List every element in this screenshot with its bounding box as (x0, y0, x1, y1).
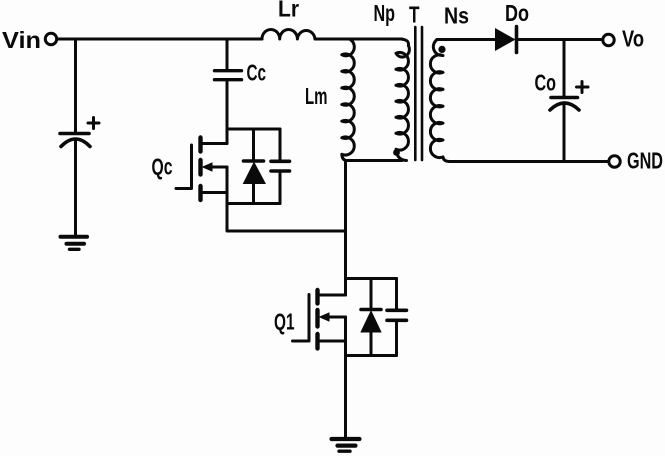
parallel capacitor Q1 (395, 279, 398, 310)
plus sign Co polarity (577, 82, 589, 93)
source arrow lead Q1 (327, 316, 346, 319)
capacitor Cin electrolytic (60, 132, 89, 136)
svg-text:Lr: Lr (278, 0, 299, 22)
wire Cc branch vertical (226, 39, 229, 69)
node Vin terminal (45, 33, 56, 44)
svg-text:Ns: Ns (444, 3, 469, 29)
svg-text:Do: Do (505, 0, 529, 26)
wire Co to ground rail (563, 104, 566, 162)
source bottom lead Qc (201, 191, 228, 194)
wire Qc source down and across (227, 202, 346, 231)
gate plate Qc (190, 145, 193, 188)
diode Do (495, 28, 516, 51)
svg-text:Q1: Q1 (274, 309, 295, 335)
Qc box bottom bar (227, 202, 280, 205)
source bottom lead Q1 (318, 340, 346, 343)
body diode Qc (252, 129, 255, 161)
svg-text:Co: Co (535, 70, 557, 96)
transformer magnetizing inductance Lm (342, 39, 355, 160)
wire Ns top to diode (437, 38, 495, 41)
inductor Lr (262, 29, 315, 39)
parallel capacitor Qc (279, 129, 282, 160)
wire Co branch (563, 40, 566, 97)
transformer primary Np (396, 39, 409, 160)
wire Cin to ground (74, 140, 77, 236)
transformer core (414, 27, 417, 160)
node phase dot Np (393, 149, 400, 156)
wire top rail Vin to Lr (57, 38, 262, 41)
capacitor Cc (215, 69, 242, 72)
source arrow lead Qc (210, 166, 227, 169)
svg-text:Np: Np (374, 0, 396, 26)
gate plate Q1 (308, 295, 311, 341)
wire input cap branch vertical (74, 39, 77, 132)
wire Cc to Qc drain box (226, 81, 229, 129)
drain lead Qc (201, 142, 228, 145)
Q1 box left edge segments (344, 279, 347, 356)
ground input (61, 235, 88, 239)
Qc box top bar (227, 128, 280, 131)
wire Lr to Np top (315, 38, 402, 41)
gate stub Q1 (293, 340, 310, 343)
svg-text:Lm: Lm (305, 83, 328, 109)
plus sign Cin polarity (88, 118, 99, 129)
wire primary bottom to Q1 (344, 161, 347, 279)
svg-text:GND: GND (627, 148, 663, 174)
Q1 box bottom bar (346, 354, 397, 357)
Qc box left edge (226, 128, 229, 204)
drain lead Q1 (318, 294, 346, 297)
Q1 box top bar (346, 277, 397, 280)
gate stub Qc (176, 187, 192, 190)
svg-text:Vin: Vin (2, 27, 41, 53)
ground Q1 (332, 437, 360, 441)
node phase dot Ns (438, 46, 445, 53)
svg-text:Qc: Qc (152, 154, 173, 180)
transformer secondary Ns (430, 40, 449, 162)
capacitor Co electrolytic (551, 96, 578, 100)
channel segments Q1 (315, 290, 319, 349)
svg-text:Cc: Cc (247, 60, 267, 86)
svg-text:Vo: Vo (622, 26, 644, 52)
node GND terminal (609, 156, 620, 167)
wire Q1 source to ground (344, 356, 347, 438)
svg-text:T: T (409, 2, 420, 28)
channel segments Qc (198, 138, 202, 201)
node Vo terminal (603, 34, 614, 45)
wire secondary bottom rail (450, 160, 609, 163)
wire diode to Vo (517, 38, 603, 41)
body diode Q1 (370, 279, 373, 310)
wire transformer bottom (346, 159, 403, 162)
